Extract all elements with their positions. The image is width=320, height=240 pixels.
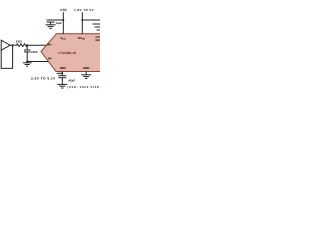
ground bbox=[23, 62, 32, 67]
wire VDD to bypass cap bbox=[51, 19, 64, 21]
node junction IN- net bbox=[26, 61, 28, 63]
svg-text:LTC2368-18: LTC2368-18 bbox=[58, 51, 76, 55]
svg-text:47µF: 47µF bbox=[68, 79, 75, 83]
svg-text:10µF: 10µF bbox=[56, 22, 63, 25]
svg-text:2.5V: 2.5V bbox=[60, 8, 67, 12]
wire GND pin bbox=[85, 72, 87, 75]
svg-text:(X5R, 0805 SIZE): (X5R, 0805 SIZE) bbox=[67, 86, 100, 89]
svg-text:IN−: IN− bbox=[48, 56, 53, 60]
wire VDD supply bbox=[62, 12, 64, 34]
wire to IN- bbox=[27, 61, 48, 63]
wire OVDD to edge bbox=[82, 19, 100, 21]
ground cut at right edge bbox=[93, 24, 100, 30]
svg-text:GND: GND bbox=[83, 66, 89, 70]
svg-text:2.5V TO 5.1V: 2.5V TO 5.1V bbox=[31, 76, 56, 80]
svg-text:10nF: 10nF bbox=[31, 50, 38, 54]
node junction OVDD bbox=[81, 19, 83, 21]
ground bbox=[46, 25, 56, 29]
capacitor C1 bbox=[24, 45, 31, 61]
ADC U1 LTC2368-18 bbox=[41, 34, 101, 72]
node junction REF bbox=[61, 72, 63, 74]
capacitor C2 bypass bbox=[47, 20, 55, 25]
svg-text:IN+: IN+ bbox=[47, 43, 52, 47]
capacitor C3 REF bypass bbox=[58, 76, 66, 85]
wire REF leader stub bbox=[57, 72, 63, 74]
resistor R1 bbox=[15, 44, 28, 47]
svg-text:10Ω: 10Ω bbox=[16, 39, 22, 43]
wire OVDD supply bbox=[81, 12, 83, 34]
wire REF bbox=[61, 72, 63, 76]
node junction after R1 bbox=[26, 44, 28, 46]
op-amp buffer A1 bbox=[1, 40, 10, 50]
ground bbox=[57, 84, 67, 88]
wire op-amp output bbox=[10, 44, 15, 46]
node junction VDD bbox=[62, 19, 64, 21]
node junction output bbox=[12, 44, 14, 46]
ground bbox=[81, 75, 91, 79]
wire to IN+ bbox=[27, 44, 46, 46]
svg-text:REF: REF bbox=[60, 66, 66, 70]
feedback wire bbox=[1, 45, 12, 68]
svg-text:1.8V TO 5V: 1.8V TO 5V bbox=[74, 8, 94, 12]
svg-text:RDL: RDL bbox=[96, 39, 101, 42]
